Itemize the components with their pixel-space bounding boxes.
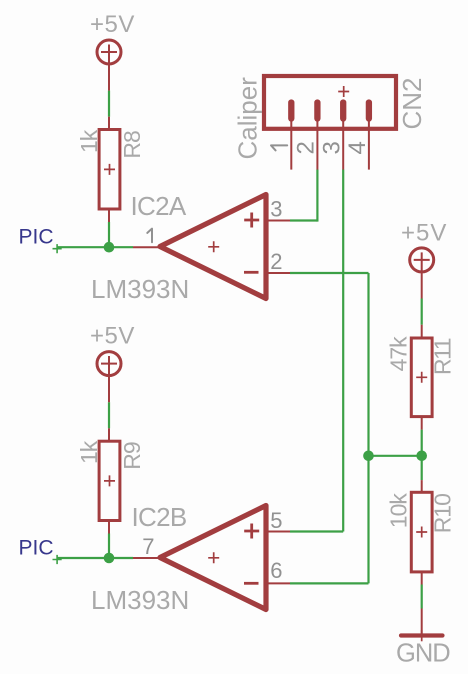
svg-text:R9: R9 [119,442,145,470]
svg-text:LM393N: LM393N [91,274,189,304]
svg-text:4: 4 [344,141,371,154]
svg-text:2: 2 [293,141,320,154]
svg-text:PIC: PIC [19,225,54,248]
svg-text:3: 3 [270,197,282,222]
svg-text:R10: R10 [430,494,456,533]
svg-text:Caliper: Caliper [233,77,263,160]
svg-text:1k: 1k [76,440,102,464]
svg-text:3: 3 [319,141,346,154]
svg-text:IC2A: IC2A [131,191,187,221]
svg-text:R8: R8 [119,131,145,159]
svg-text:+5V: +5V [90,11,135,38]
svg-text:+5V: +5V [401,219,447,246]
svg-text:+5V: +5V [90,323,135,350]
svg-text:1k: 1k [76,129,102,153]
svg-text:6: 6 [270,558,282,583]
svg-text:10k: 10k [386,493,412,529]
svg-text:PIC: PIC [19,536,54,559]
svg-text:CN2: CN2 [397,77,427,129]
svg-text:5: 5 [270,508,282,533]
svg-text:7: 7 [142,534,154,559]
svg-text:R11: R11 [430,338,456,375]
svg-text:GND: GND [396,640,450,668]
svg-text:LM393N: LM393N [91,585,189,615]
svg-text:47k: 47k [386,336,412,372]
svg-text:2: 2 [270,249,282,274]
svg-text:IC2B: IC2B [132,502,187,532]
